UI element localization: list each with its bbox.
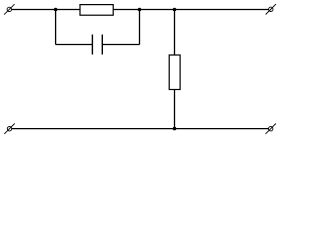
node D (junction dot) <box>173 127 177 131</box>
terminal P4 (bottom-right port) <box>266 124 276 134</box>
capacitor C1 right plate <box>101 35 103 55</box>
wire: node C down to resistor R2 <box>174 10 176 56</box>
resistor R1 (series, horizontal) <box>80 5 113 16</box>
node B (junction dot) <box>138 8 142 12</box>
node A (junction dot) <box>54 8 58 12</box>
wire: capacitor branch right horizontal <box>102 44 139 46</box>
wire top-right: R1 to terminal P2 <box>113 9 268 11</box>
wire: capacitor branch left horizontal <box>56 44 93 46</box>
wire: capacitor branch up to node B <box>139 10 141 45</box>
resistor R2 (shunt, vertical) <box>169 55 180 90</box>
terminal P3 (bottom-left port) <box>4 124 14 134</box>
capacitor C1 left plate <box>91 35 93 55</box>
wire: R2 down to node D on bottom rail <box>174 90 176 129</box>
wire: node A down to capacitor branch <box>55 10 57 45</box>
terminal P1 (top-left port) <box>4 4 14 14</box>
terminal P2 (top-right port) <box>266 4 276 14</box>
wire bottom rail: P3 to P4 <box>12 128 269 130</box>
node C (junction dot) <box>173 8 177 12</box>
wire top-left: P1 to resistor R1 <box>12 9 80 11</box>
